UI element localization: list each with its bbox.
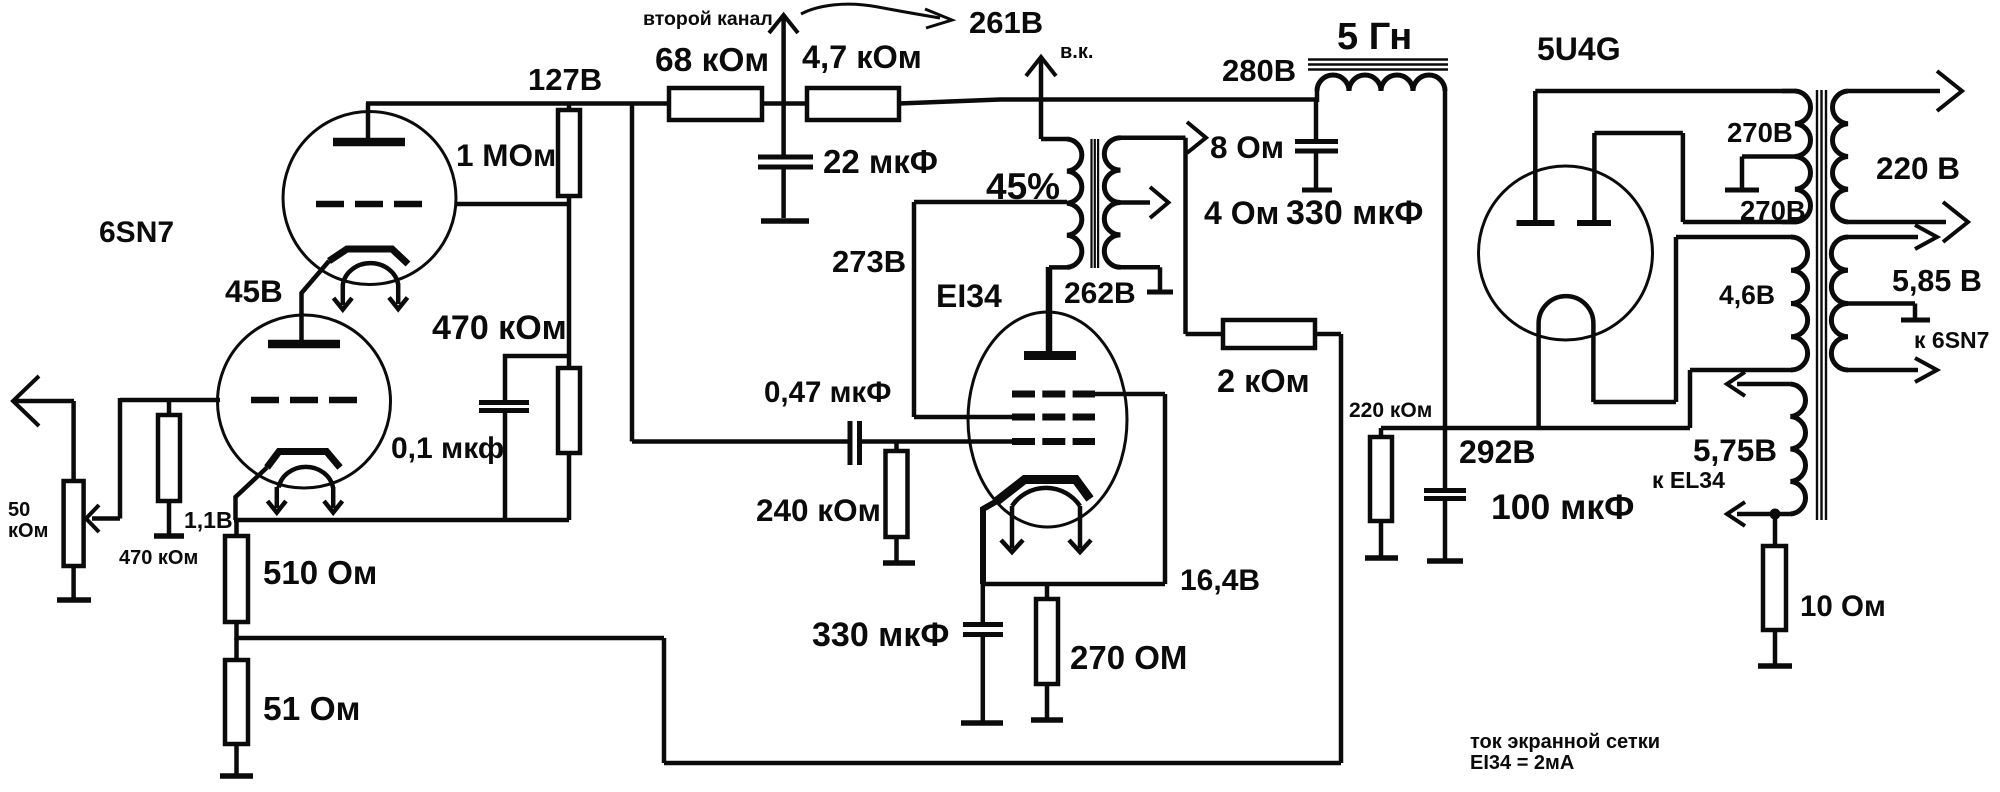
capacitor 330 мкФ cathode xyxy=(963,584,1003,722)
svg-text:68 кОм: 68 кОм xyxy=(655,42,769,79)
V1b cathode lead xyxy=(236,468,268,521)
arrow 4 Ом xyxy=(1150,187,1168,218)
svg-text:5,85 В: 5,85 В xyxy=(1892,264,1982,298)
capacitor 0,1 мкф branch xyxy=(479,356,569,520)
label 220 В xyxy=(1876,150,1960,186)
wire left plate to HV top xyxy=(1535,89,1796,94)
label 100 мкФ xyxy=(1491,487,1634,527)
wire V1a grid to 1 МОм xyxy=(456,202,571,207)
wire input to pot xyxy=(71,401,76,481)
wire 510/51 junction rail xyxy=(237,636,665,641)
OPT secondary winding xyxy=(1104,138,1120,268)
svg-text:100 мкФ: 100 мкФ xyxy=(1491,487,1634,527)
resistor 68 кОм xyxy=(669,88,762,120)
svg-text:45В: 45В xyxy=(225,273,283,309)
hand-drawn arrow to 261В xyxy=(801,4,952,28)
wire feedback from 8 Ом xyxy=(1183,138,1188,334)
270 ОМ ground xyxy=(1031,717,1063,723)
pot ground xyxy=(57,566,91,600)
label 273В xyxy=(832,244,906,279)
svg-text:270В: 270В xyxy=(1727,117,1793,148)
wire 45% tap xyxy=(914,200,1067,205)
svg-text:16,4В: 16,4В xyxy=(1180,564,1260,597)
svg-text:510 Ом: 510 Ом xyxy=(263,554,377,591)
5U4G plate right xyxy=(1577,133,1611,223)
wire coupling drop x632 xyxy=(630,103,635,442)
svg-text:220 кОм: 220 кОм xyxy=(1349,399,1432,422)
wire 6,3В top arrow xyxy=(1848,225,1937,249)
wire 5,75В bottom arrow xyxy=(1727,502,1791,526)
svg-text:5 Гн: 5 Гн xyxy=(1337,16,1412,58)
label 5U4G xyxy=(1537,31,1621,67)
label 4,7 кОм xyxy=(802,39,922,75)
label EI34 xyxy=(936,278,1002,314)
svg-text:240 кОм: 240 кОм xyxy=(756,492,881,528)
svg-text:470 кОм: 470 кОм xyxy=(432,309,567,347)
330 мкФ cathode ground xyxy=(961,720,1003,726)
V1b grid dashes xyxy=(251,397,357,404)
label 261В xyxy=(969,5,1043,40)
svg-text:ток экранной сетки: ток экранной сетки xyxy=(1470,731,1660,753)
wire coupling horizontal xyxy=(632,439,848,444)
svg-text:270В: 270В xyxy=(1740,195,1806,226)
label 45% xyxy=(986,166,1060,207)
svg-text:0,47 мкФ: 0,47 мкФ xyxy=(764,376,891,409)
label 68 кОм xyxy=(655,42,769,79)
wire grid line triode V1b xyxy=(120,398,220,403)
OPT core xyxy=(1092,139,1099,268)
100 мкФ ground xyxy=(1427,558,1463,564)
svg-text:EI34 = 2мА: EI34 = 2мА xyxy=(1470,752,1574,774)
wire 5,75В top arrow к EL34 xyxy=(1727,372,1791,396)
label второй канал xyxy=(643,8,773,30)
wire g3 to cathode xyxy=(1095,394,1165,584)
label 10 Ом xyxy=(1800,590,1886,623)
label 270В bottom xyxy=(1740,195,1806,226)
svg-text:1,1В: 1,1В xyxy=(184,507,233,533)
51 Ом ground xyxy=(220,744,253,776)
EL34 grid g3 dashes xyxy=(1012,391,1095,398)
label 2 кОм xyxy=(1217,363,1310,399)
label 262В xyxy=(1064,277,1136,310)
svg-text:6SN7: 6SN7 xyxy=(99,216,174,249)
svg-text:4 Ом: 4 Ом xyxy=(1204,195,1279,231)
svg-text:22 мкФ: 22 мкФ xyxy=(823,143,938,180)
svg-text:50: 50 xyxy=(8,499,30,521)
resistor 4,7 кОм xyxy=(807,88,899,120)
label 470 кОм xyxy=(432,309,567,347)
EL34 plate xyxy=(1024,267,1076,356)
svg-text:330 мкФ: 330 мкФ xyxy=(812,616,949,654)
svg-text:к EL34: к EL34 xyxy=(1652,467,1725,493)
wire feedback down xyxy=(1339,334,1344,763)
wire 45В cathode V1a to plate V1b xyxy=(302,261,330,340)
V1b plate xyxy=(268,340,340,349)
22 мкФ ground xyxy=(761,218,809,224)
5U4G plate left xyxy=(1517,91,1555,223)
B+ rail y428 xyxy=(1381,426,1690,431)
wire 220V top arrow xyxy=(1848,71,1962,111)
resistor 470 кОм plate follower xyxy=(558,204,580,520)
svg-text:51 Ом: 51 Ом xyxy=(263,691,360,728)
label 470 кОм small xyxy=(119,547,198,569)
PT 5,75В winding xyxy=(1791,384,1806,514)
wire filament right to 4,6В winding xyxy=(1593,237,1791,402)
cathode rail y520 xyxy=(234,518,569,523)
choke 5 Гн winding xyxy=(1317,75,1445,102)
svg-text:кОм: кОм xyxy=(8,520,48,542)
wire 8 Ом tap xyxy=(1121,135,1186,140)
label 45В xyxy=(225,273,283,309)
label 240 кОм xyxy=(756,492,881,528)
label 6SN7 xyxy=(99,216,174,249)
label 16,4В xyxy=(1180,564,1260,597)
470k grid ground xyxy=(154,501,184,536)
EL34 cathode arrows xyxy=(1001,506,1091,552)
label 330 мкФ filter xyxy=(1286,194,1423,232)
resistor 51 Ом xyxy=(225,638,248,744)
arrow 8 Ом xyxy=(1187,122,1206,153)
label 127В xyxy=(528,62,602,97)
wire 4 Ом tap xyxy=(1121,200,1151,205)
HV center tap ground xyxy=(1725,157,1795,191)
label 1 МОм xyxy=(456,137,556,173)
resistor 10 Ом xyxy=(1763,514,1786,665)
wire secondary bottom xyxy=(1121,267,1161,291)
label 4 Ом xyxy=(1204,195,1279,231)
tube 6SN7 V1b envelope xyxy=(218,315,391,488)
choke 5 Гн core xyxy=(1308,60,1448,70)
tube EL34 envelope xyxy=(968,312,1127,527)
label 510 Ом xyxy=(263,554,377,591)
PT 4,6В winding xyxy=(1791,237,1808,370)
main B+ rail top xyxy=(366,100,1316,104)
svg-text:второй канал: второй канал xyxy=(643,8,773,30)
10 Ом ground xyxy=(1758,663,1792,669)
svg-text:280В: 280В xyxy=(1222,53,1296,88)
label 1,1В xyxy=(184,507,233,533)
label 280В xyxy=(1222,53,1296,88)
svg-text:270 ОМ: 270 ОМ xyxy=(1070,639,1187,676)
wire 4,6В bottom to B+ rail xyxy=(1690,370,1791,428)
V1a grid dashes xyxy=(316,201,422,208)
V1a plate xyxy=(333,103,405,142)
svg-text:220 В: 220 В xyxy=(1876,150,1960,186)
label 220 кОм xyxy=(1349,399,1432,422)
V1b cathode xyxy=(267,452,340,488)
EL34 grid g1 dashes xyxy=(1012,438,1095,445)
svg-text:292В: 292В xyxy=(1459,434,1536,470)
svg-text:2 кОм: 2 кОм xyxy=(1217,363,1310,399)
label 50 кОм xyxy=(8,499,48,542)
resistor 1 МОм xyxy=(558,103,580,204)
capacitor 22 мкФ xyxy=(758,103,813,218)
V1a cathode arrows xyxy=(334,284,408,310)
label 5,85 В xyxy=(1892,264,1982,298)
PT 220V winding xyxy=(1833,91,1848,222)
EL34 cathode xyxy=(997,480,1090,507)
cathode rail EL34 xyxy=(983,582,1165,587)
capacitor 100 мкФ xyxy=(1424,491,1466,561)
OPT primary winding xyxy=(1041,139,1082,267)
label 22 мкФ xyxy=(823,143,938,180)
secondary ground xyxy=(1147,290,1173,295)
input arrow xyxy=(13,376,74,426)
label 270 ОМ xyxy=(1070,639,1187,676)
svg-text:8 Ом: 8 Ом xyxy=(1210,129,1284,165)
svg-text:45%: 45% xyxy=(986,166,1060,207)
label в.к. xyxy=(1060,41,1093,63)
wire feedback left riser xyxy=(662,638,667,763)
arrow второй канал xyxy=(769,15,798,103)
svg-text:273В: 273В xyxy=(832,244,906,279)
V1b cathode arrows xyxy=(268,487,343,513)
label ток экранной сетки xyxy=(1470,731,1660,774)
220 кОм ground xyxy=(1365,555,1398,561)
svg-text:к 6SN7: к 6SN7 xyxy=(1914,327,1989,353)
PT core xyxy=(1817,90,1826,520)
label 5,75В xyxy=(1693,432,1777,468)
label 8 Ом xyxy=(1210,129,1284,165)
svg-text:4,6В: 4,6В xyxy=(1719,280,1775,310)
label 5 Гн xyxy=(1337,16,1412,58)
svg-text:1 МОм: 1 МОм xyxy=(456,137,556,173)
6,3В center tap ground xyxy=(1848,304,1930,321)
wire right plate to HV bottom xyxy=(1594,133,1796,222)
label 292В xyxy=(1459,434,1536,470)
svg-text:10 Ом: 10 Ом xyxy=(1800,590,1886,623)
svg-text:127В: 127В xyxy=(528,62,602,97)
label 270В top xyxy=(1727,117,1793,148)
svg-text:0,1 мкф: 0,1 мкф xyxy=(391,432,504,465)
wire 220V bottom arrow xyxy=(1848,202,1968,242)
wire grid EL34 xyxy=(862,439,1012,444)
resistor 240 кОм xyxy=(886,442,908,563)
svg-text:261В: 261В xyxy=(969,5,1043,40)
wire choke right down xyxy=(1443,91,1448,489)
label 0,47 мкФ xyxy=(764,376,891,409)
svg-text:в.к.: в.к. xyxy=(1060,41,1093,63)
label 51 Ом xyxy=(263,691,360,728)
wire feedback bottom rail xyxy=(664,761,1341,766)
resistor 2 кОм xyxy=(1186,320,1342,348)
wire 6,3В bottom arrow xyxy=(1848,358,1937,382)
resistor 510 Ом xyxy=(225,520,248,640)
EL34 grid g2 dashes xyxy=(1012,414,1095,421)
label к 6SN7 xyxy=(1914,327,1989,353)
svg-text:470 кОм: 470 кОм xyxy=(119,547,198,569)
resistor 470 кОм grid xyxy=(158,400,180,501)
240 кОм ground xyxy=(883,560,915,566)
V1a cathode xyxy=(329,249,408,285)
svg-text:4,7 кОм: 4,7 кОм xyxy=(802,39,922,75)
tube 6SN7 V1a envelope xyxy=(283,112,456,285)
PT HV winding 270В+270В xyxy=(1782,91,1810,222)
label 4,6В xyxy=(1719,280,1775,310)
label 330 мкФ cathode xyxy=(812,616,949,654)
resistor 220 кОм xyxy=(1370,428,1392,557)
330 мкФ filter ground xyxy=(1302,188,1332,193)
node dot 5,75В bottom xyxy=(1770,509,1781,520)
svg-text:EI34: EI34 xyxy=(936,278,1002,314)
label к EL34 xyxy=(1652,467,1725,493)
EL34 cathode lead xyxy=(983,501,997,584)
wire to wiper xyxy=(118,398,123,519)
capacitor 330 мкФ filter xyxy=(1295,100,1338,189)
resistor 270 ОМ xyxy=(1036,584,1058,719)
wire screen tap drop x914 xyxy=(914,202,1012,417)
label 0,1 мкф xyxy=(391,432,504,465)
potentiometer 50 кОм xyxy=(64,481,120,566)
svg-text:262В: 262В xyxy=(1064,277,1136,310)
arrow в.к. xyxy=(1026,57,1056,139)
capacitor 0,47 мкФ xyxy=(850,421,860,465)
svg-text:5,75В: 5,75В xyxy=(1693,432,1777,468)
svg-text:330 мкФ: 330 мкФ xyxy=(1286,194,1423,232)
5U4G filament xyxy=(1539,296,1594,428)
svg-text:5U4G: 5U4G xyxy=(1537,31,1621,67)
PT 6,3В winding xyxy=(1831,237,1848,370)
tube 5U4G envelope xyxy=(1479,166,1653,340)
